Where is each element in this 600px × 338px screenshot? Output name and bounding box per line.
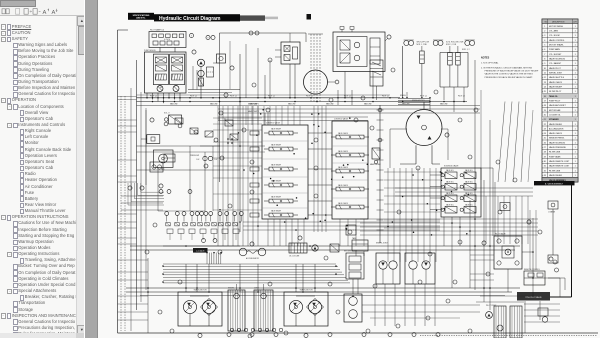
svg-text:PILOT 1-2: PILOT 1-2 [150, 96, 157, 98]
control valve spool L1 [264, 131, 298, 135]
svg-text:TRAVEL MOTOR: TRAVEL MOTOR [193, 289, 207, 292]
svg-text:VALVE REMOTE CONT: VALVE REMOTE CONT [549, 165, 570, 168]
svg-text:1: 1 [575, 138, 576, 140]
wire left dotted rail 1 [120, 96, 122, 331]
control valve spool L6 [264, 213, 298, 217]
solenoid valve block housing [441, 168, 481, 217]
svg-text:PRESSURE OF EACH RELIEF VALVE: PRESSURE OF EACH RELIEF VALVE ON DUTY RE… [485, 70, 540, 73]
svg-text:1: 1 [575, 73, 576, 75]
orifice valve small [190, 128, 198, 134]
svg-text:1.0X: 1.0X [196, 159, 200, 161]
svg-text:25: 25 [544, 138, 546, 140]
balloon scatter [145, 58, 557, 338]
title bar Hydraulic Circuit Diagram [154, 14, 240, 22]
svg-text:VALVE CHECK: VALVE CHECK [338, 150, 348, 153]
svg-text:7: 7 [191, 35, 192, 37]
pilot line bundle vertical [207, 253, 221, 264]
wire jumpers between banks [308, 106, 332, 232]
svg-text:JOINT: JOINT [254, 288, 259, 290]
svg-text:1: 1 [575, 100, 576, 102]
pilot pump circle [197, 59, 204, 66]
wire long right risers [444, 200, 470, 288]
balloon left mid f [214, 138, 218, 142]
svg-text:18: 18 [544, 105, 546, 107]
svg-text:1: 1 [575, 147, 576, 149]
svg-text:PILOT MANIFOLD: PILOT MANIFOLD [150, 29, 165, 32]
balloon brake valve [385, 35, 391, 41]
wire riser pilot pump lines [118, 66, 198, 100]
svg-text:6: 6 [544, 49, 545, 51]
wire top distribution verticals [246, 33, 352, 105]
svg-text:VALVE SOL: VALVE SOL [465, 181, 473, 184]
svg-text:9: 9 [544, 63, 545, 65]
svg-text:1: 1 [575, 119, 576, 121]
svg-text:1: 1 [575, 110, 576, 112]
gauge top balloon row [159, 190, 192, 194]
svg-text:CYL. BASKET: CYL. BASKET [549, 62, 562, 65]
balloon bottom right b [549, 257, 553, 261]
svg-text:20: 20 [544, 114, 546, 116]
anti-drift valve balloons 3 [465, 40, 475, 46]
holding valve solenoid 2 [448, 46, 453, 65]
svg-text:CYL. BOOM: CYL. BOOM [549, 35, 560, 37]
pressure sensor widget 2 [548, 201, 558, 213]
svg-text:P1: P1 [218, 119, 220, 121]
pilot filter [207, 67, 214, 77]
wire left dotted rail 2 [124, 96, 126, 331]
svg-text:VALVE SOL: VALVE SOL [465, 169, 473, 172]
wire riser C [213, 62, 217, 64]
wire right slanted routing set [498, 102, 533, 183]
wire main delivery line 1 [137, 97, 401, 99]
svg-text:MOTOR FAN: MOTOR FAN [549, 109, 561, 112]
accumulator assembly [153, 150, 173, 171]
wire pilot risers center top [246, 106, 300, 125]
svg-text:1: 1 [575, 63, 576, 65]
svg-text:MAIN LINE: MAIN LINE [210, 103, 218, 106]
accumulator pair with hose [239, 248, 266, 256]
control valve spool L4 [264, 183, 298, 187]
wire anti-drift riser 1 [402, 46, 404, 98]
oil cooler box [289, 243, 307, 253]
suction strainer bottom [497, 325, 503, 331]
svg-text:SWIVEL JOINT: SWIVEL JOINT [549, 73, 563, 75]
svg-text:PUMP DEVICE: PUMP DEVICE [144, 50, 156, 52]
center joint tower 2 [254, 290, 273, 331]
svg-text:PRESS SW: PRESS SW [190, 155, 199, 157]
control valve spool L5 [264, 199, 298, 203]
fan motor circle [312, 245, 318, 251]
wire center-left mesh verticals [218, 106, 258, 246]
svg-text:PILOT 1-2: PILOT 1-2 [382, 96, 389, 98]
wire right columns from holding loop [444, 60, 481, 290]
svg-text:1: 1 [575, 114, 576, 116]
pilot valve cluster bottom right [494, 236, 522, 269]
svg-text:PRESSURE FOR EACH RELIEF VALVE: PRESSURE FOR EACH RELIEF VALVE IN CHART. [485, 76, 534, 79]
svg-text:VALVE SOL: VALVE SOL [446, 192, 454, 195]
svg-text:FILTER LINE: FILTER LINE [549, 170, 561, 172]
wire cross lines right top [398, 92, 430, 111]
balloon cooler [298, 236, 302, 240]
wire riser B [239, 54, 241, 232]
wire swing feed lines [390, 129, 448, 168]
balloon bottom row [227, 333, 440, 337]
svg-text:OIL COOLER: OIL COOLER [289, 256, 300, 258]
pressure port circle 2 [378, 138, 382, 142]
svg-text:VALVE CONTROL: VALVE CONTROL [549, 39, 565, 42]
svg-text:CONTROL VALVE: CONTROL VALVE [266, 122, 281, 125]
balloon left column a [140, 186, 144, 190]
balloon callout 2 [211, 35, 215, 39]
svg-text:SLTD. HOLLOW LOWE: SLTD. HOLLOW LOWE [446, 42, 464, 44]
pump regulator assembly [145, 52, 187, 93]
revision mark square [307, 14, 312, 20]
svg-text:NOTES: NOTES [481, 57, 490, 60]
control valve spool labels center [338, 132, 348, 205]
wire left mid extensions [158, 113, 268, 211]
svg-text:10: 10 [544, 68, 546, 70]
travel brake valve assembly [333, 27, 385, 99]
svg-text:2. IN THE HYDRAULIC CIRCUI: 2. IN THE HYDRAULIC CIRCUIT DIAGRAM, SET… [481, 67, 532, 70]
hydraulic tank symbol [352, 240, 368, 256]
svg-text:TANK: TANK [352, 237, 357, 240]
left mid port circle a [164, 122, 168, 126]
svg-text:1: 1 [575, 35, 576, 37]
balloon travel motor 2 [304, 333, 308, 337]
svg-text:PILOT 1-2: PILOT 1-2 [268, 96, 275, 98]
pilot check valve row [166, 223, 237, 226]
svg-text:PILOT 1-2: PILOT 1-2 [420, 96, 427, 98]
svg-text:VALVE RELIEF: VALVE RELIEF [549, 174, 563, 177]
title block SPECIFICATIONS AND ETC. [128, 13, 154, 20]
anti-drift label 1 [417, 42, 430, 46]
svg-text:VALVE SOL: VALVE SOL [446, 169, 454, 172]
svg-text:VALVE RELIEF: VALVE RELIEF [549, 85, 563, 88]
wire right mesh horizontals [384, 172, 440, 228]
swing motor circle [400, 102, 442, 164]
wire right mesh verticals [388, 168, 436, 262]
balloon accumulator [250, 242, 254, 246]
svg-text:22: 22 [544, 124, 546, 126]
solenoid valve SV6 [460, 195, 476, 202]
svg-text:TANK OIL: TANK OIL [549, 95, 559, 98]
svg-text:CONTROL VALVE: CONTROL VALVE [334, 118, 349, 121]
wire bottom center-right verticals [362, 284, 480, 326]
svg-text:VALVE CHECK: VALVE CHECK [338, 166, 348, 169]
svg-text:PILOT 1-2: PILOT 1-2 [458, 96, 465, 98]
travel motor group right [284, 289, 328, 327]
solenoid valve SV2 [460, 172, 476, 179]
svg-text:1: 1 [575, 68, 576, 70]
svg-text:MAIN LINE: MAIN LINE [170, 103, 178, 106]
pump group right block [344, 294, 362, 322]
svg-text:1: 1 [575, 82, 576, 84]
detail inset heavy border [534, 185, 572, 297]
svg-text:TRAVEL MOTOR: TRAVEL MOTOR [299, 289, 313, 292]
svg-text:8: 8 [544, 59, 545, 61]
svg-text:1: 1 [575, 152, 576, 154]
svg-text:1: 1 [575, 161, 576, 163]
component name labels [144, 29, 540, 308]
center joint tower 1 [228, 290, 245, 331]
wire anti-drift riser 2 [421, 64, 423, 99]
bus line labels [150, 96, 465, 106]
wire verticals below banks [268, 219, 364, 246]
svg-text:1: 1 [575, 175, 576, 177]
svg-text:PILOT VALVE: PILOT VALVE [495, 233, 506, 236]
svg-text:SWING MOTOR: SWING MOTOR [412, 100, 425, 102]
left mid valve x4 [230, 134, 238, 140]
detail inset header bar [534, 181, 575, 185]
control valve spool L2 [264, 147, 298, 151]
wire bottom right links [508, 218, 560, 333]
wire left distribution [121, 110, 240, 211]
svg-text:PILOT 1-2: PILOT 1-2 [190, 96, 197, 98]
solenoid valve SV8 [460, 207, 476, 214]
bottom edge dashed line [420, 335, 597, 337]
svg-text:Hydraulic Circuit Diagram: Hydraulic Circuit Diagram [159, 16, 221, 22]
svg-text:33: 33 [544, 175, 546, 177]
svg-text:ACCUMULATOR: ACCUMULATOR [246, 257, 260, 260]
swing pump group left [376, 253, 400, 284]
svg-text:VALVE IN THE CONTROL VALVE: VALVE IN THE CONTROL VALVE IS THE SETTIN… [485, 73, 534, 76]
svg-text:28: 28 [544, 152, 546, 154]
balloon bottom right c [482, 241, 486, 245]
left mid pressure pair [196, 156, 218, 161]
holding valve solenoid 1 [420, 46, 425, 64]
balloon travel motor 1 [198, 333, 202, 337]
balloon left mid h [204, 164, 208, 168]
svg-text:SWIVEL: SWIVEL [228, 288, 234, 290]
main pump P1 circle [157, 86, 163, 92]
wire risers bottom [186, 264, 358, 294]
wire left rail 5 [145, 108, 147, 290]
solenoid valve SV7 [441, 207, 457, 214]
svg-text:13: 13 [544, 82, 546, 84]
svg-text:CYL. ARM: CYL. ARM [549, 30, 558, 33]
svg-text:VALVE CHECK: VALVE CHECK [338, 132, 348, 135]
svg-text:STRAINER: STRAINER [549, 118, 559, 121]
control valve spool C3 [331, 169, 369, 173]
svg-text:NOR. 1, 2 RB: NOR. 1, 2 RB [417, 44, 427, 46]
svg-text:1: 1 [575, 156, 576, 158]
travel motor group left [178, 289, 222, 327]
anti-drift valve balloons 1 [404, 40, 414, 46]
svg-text:MAIN PUMP 2: MAIN PUMP 2 [248, 110, 259, 113]
pressure port circle 1 [378, 108, 382, 112]
svg-text:PUMP GEAR: PUMP GEAR [549, 155, 561, 158]
svg-text:TRVL PILOT VALVE: TRVL PILOT VALVE [525, 296, 542, 299]
svg-text:12: 12 [544, 77, 546, 79]
svg-text:MAIN RELIEF: MAIN RELIEF [370, 163, 381, 166]
left mid gauge block [150, 162, 163, 172]
balloon under gauge row a [202, 239, 217, 243]
pump tower bottom right 2 [510, 306, 522, 338]
wire right long horizontals [360, 188, 538, 235]
wire left rail 4 [140, 92, 142, 302]
gear pump circle [198, 70, 204, 76]
svg-text:VALVE RELIEF: VALVE RELIEF [271, 210, 281, 213]
svg-text:MAIN LINE: MAIN LINE [288, 103, 296, 106]
holding circuit loop [440, 53, 468, 88]
svg-text:P2: P2 [224, 119, 226, 121]
control valve spool C4 [331, 187, 369, 191]
svg-text:1. RANGE: 1. RANGE [548, 210, 555, 213]
pump tower bottom right 1 [494, 306, 506, 338]
left mid valve x3 [205, 131, 213, 137]
svg-text:15: 15 [544, 91, 546, 93]
left mid valve x1 [175, 118, 183, 124]
solenoid valve SV5 [441, 195, 457, 202]
svg-text:21: 21 [544, 119, 546, 121]
svg-text:29: 29 [544, 156, 546, 158]
svg-text:CYL. BUCKET: CYL. BUCKET [549, 54, 562, 56]
anti-drift label 2 [446, 42, 464, 46]
svg-text:NOR. 1, 2: NOR. 1, 2 [462, 49, 470, 51]
svg-text:3: 3 [544, 35, 545, 37]
solenoid valve SV3 [441, 184, 457, 191]
pressure sensor widget 1 [500, 203, 510, 211]
svg-text:MAIN LINE: MAIN LINE [364, 103, 372, 106]
wire dashed bundle through pump [308, 34, 323, 102]
return line column [377, 105, 384, 243]
svg-text:5: 5 [544, 45, 545, 47]
main relief valve [372, 148, 380, 164]
svg-text:1: 1 [575, 91, 576, 93]
svg-text:1: 1 [575, 54, 576, 56]
pump diamond left group [201, 299, 324, 316]
control valve spool labels left [271, 128, 281, 213]
left elbow routing lines [128, 183, 164, 205]
svg-text:14: 14 [544, 86, 546, 88]
wire left rail solid [136, 60, 138, 310]
left mid small block [164, 154, 175, 162]
svg-text:ACCUMULATOR: ACCUMULATOR [549, 127, 564, 130]
title bar fade tail [240, 15, 278, 20]
bank top tie lines [218, 117, 368, 121]
svg-text:1: 1 [575, 166, 576, 168]
svg-text:1: 1 [575, 40, 576, 42]
control valve bank center housing [332, 121, 368, 219]
svg-text:VALVE SOLENOID: VALVE SOLENOID [549, 141, 566, 144]
solenoid valve single [165, 115, 182, 124]
bottom right small box [538, 308, 548, 322]
svg-text:SWIVEL JOINT: SWIVEL JOINT [376, 243, 388, 245]
pilot line bundle pair upper [130, 246, 520, 250]
balloon callout 29 [224, 93, 228, 97]
svg-text:MAIN LINE: MAIN LINE [326, 103, 334, 106]
solenoid valve SV4 [460, 184, 476, 191]
svg-text:VALVE RELIEF: VALVE RELIEF [271, 144, 281, 147]
wire pilot supply line [188, 66, 240, 97]
wire main delivery line 2 [137, 101, 468, 103]
pilot valve lower row [167, 229, 239, 240]
notes text block [481, 57, 539, 79]
svg-text:7: 7 [544, 54, 545, 56]
wire bottom distribution lines [126, 120, 520, 333]
svg-text:SOL. V: SOL. V [164, 113, 170, 115]
valve block mid right [346, 253, 364, 279]
svg-text:VALVE SOL: VALVE SOL [446, 181, 454, 184]
svg-text:1: 1 [575, 142, 576, 144]
solenoid valve SV1 [441, 172, 457, 179]
balloon bottom right a [527, 220, 531, 224]
control valve spool L3 [264, 167, 298, 171]
control valve bank left housing [250, 125, 308, 219]
left mid port circle b [178, 124, 182, 128]
svg-text:1: 1 [575, 77, 576, 79]
svg-text:MAIN PUMP 1: MAIN PUMP 1 [248, 103, 259, 106]
svg-text:24: 24 [544, 133, 546, 135]
svg-text:9: 9 [208, 37, 209, 39]
balloon callout 9 [206, 35, 210, 39]
svg-text:1: 1 [575, 133, 576, 135]
svg-text:VALVE CHECK: VALVE CHECK [338, 202, 348, 205]
svg-text:VALVE SOLENOID: VALVE SOLENOID [549, 58, 566, 61]
svg-text:1: 1 [575, 59, 576, 61]
svg-text:1: 1 [575, 49, 576, 51]
svg-text:REMOTE CONTROL: REMOTE CONTROL [524, 269, 540, 271]
wire top link to valve blocks [220, 33, 307, 89]
svg-text:MOTOR SWING: MOTOR SWING [549, 26, 563, 28]
svg-text:RETURN FILTER: RETURN FILTER [344, 251, 358, 253]
svg-text:1: 1 [575, 26, 576, 28]
svg-text:MOTOR TRAVEL: MOTOR TRAVEL [549, 44, 564, 47]
svg-text:FILTER PILOT: FILTER PILOT [549, 91, 562, 93]
svg-text:AND ETC.: AND ETC. [136, 17, 146, 20]
svg-text:VALVE ANTI-DRIFT: VALVE ANTI-DRIFT [549, 104, 567, 107]
main pump P2 circle [173, 86, 179, 92]
wire bottom right grid horizontals [470, 255, 560, 322]
svg-text:1: 1 [575, 128, 576, 130]
svg-text:MAIN LINE: MAIN LINE [440, 103, 448, 106]
balloon callout 7 [189, 33, 193, 37]
svg-text:VALVE RELIEF: VALVE RELIEF [271, 196, 281, 199]
svg-text:VALVE RELIEF: VALVE RELIEF [271, 128, 281, 131]
svg-text:11: 11 [544, 73, 546, 75]
balloon left column c [159, 184, 163, 188]
svg-text:VALVE CHECK: VALVE CHECK [549, 132, 563, 135]
svg-text:VALVE RELIEF: VALVE RELIEF [271, 180, 281, 183]
svg-text:4: 4 [544, 40, 545, 42]
balloon callout 31 [192, 50, 196, 54]
svg-text:30: 30 [544, 161, 546, 163]
svg-text:SENSOR PRESS.: SENSOR PRESS. [549, 138, 565, 140]
svg-text:VALVE SOL: VALVE SOL [446, 204, 454, 207]
svg-text:32: 32 [544, 170, 546, 172]
svg-text:1: 1 [575, 170, 576, 172]
svg-text:PILOT PUMP: PILOT PUMP [486, 305, 497, 307]
solenoid unit dark label [193, 248, 208, 253]
balloon tower bottom row [230, 328, 283, 332]
svg-text:VALVE SOL: VALVE SOL [465, 204, 473, 207]
return filter box [346, 225, 356, 235]
wire upper horizontals [137, 95, 481, 113]
svg-text:27: 27 [544, 147, 546, 149]
svg-text:VALVE SHUTTLE: VALVE SHUTTLE [549, 76, 565, 79]
svg-text:16: 16 [544, 96, 546, 98]
svg-text:1: 1 [575, 86, 576, 88]
svg-text:1: 1 [575, 31, 576, 33]
svg-text:VALVE REMOTE CONT: VALVE REMOTE CONT [549, 160, 570, 163]
svg-text:1: 1 [575, 96, 576, 98]
balloon left mid g [220, 156, 224, 160]
svg-text:1: 1 [575, 124, 576, 126]
svg-text:31: 31 [544, 166, 546, 168]
charge pump circle [304, 70, 339, 94]
solenoid bank mini labels [446, 169, 473, 207]
svg-text:19: 19 [544, 110, 546, 112]
